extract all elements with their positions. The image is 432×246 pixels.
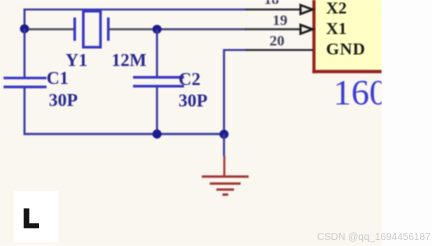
crystal Y1 symbol: [75, 11, 109, 47]
wire: pin 20 GND run (corner to pin): [224, 50, 246, 134]
ground symbol (power gnd): [202, 156, 249, 195]
pin 20 line (black): [245, 49, 313, 51]
wire: ground stem upper (blue): [223, 134, 225, 156]
junction A dot: [20, 24, 29, 33]
wire: net XTAL1 run (junction B to pin 19): [157, 28, 246, 30]
pin 18 line (black): [245, 9, 313, 11]
capacitor C1 plates: [4, 78, 47, 87]
wire: C2 top lead (junction B down): [156, 29, 158, 77]
wire: C1 top lead: [23, 29, 25, 78]
pin 18 input arrow: [301, 5, 313, 14]
junction D dot (ground tap): [219, 130, 228, 139]
IC U1 body (80C51 style, cropped at top/right): [312, 0, 382, 73]
letter L label: [24, 208, 39, 228]
wire: crystal right stub (Y1 to junction B): [108, 28, 157, 30]
wire: net XTAL2 top run (junction A to pin 18): [25, 10, 247, 29]
junction C dot (C2 to bus): [152, 129, 161, 138]
junction B dot: [152, 25, 161, 34]
wire: C2 bottom lead: [156, 86, 158, 135]
capacitor C2 plates: [133, 77, 184, 86]
pin 19 input arrow: [301, 25, 313, 34]
svg-text:CSDN @qq_1694456187: CSDN @qq_1694456187: [317, 232, 431, 243]
wire: bottom ground bus: [24, 133, 225, 135]
wire: C1 bottom lead: [23, 87, 25, 135]
pin 19 line (black): [245, 28, 313, 30]
white callout box: [14, 191, 58, 242]
wire: crystal left stub (junction A to Y1): [25, 28, 76, 30]
crop: white page strip on right: [382, 0, 432, 246]
